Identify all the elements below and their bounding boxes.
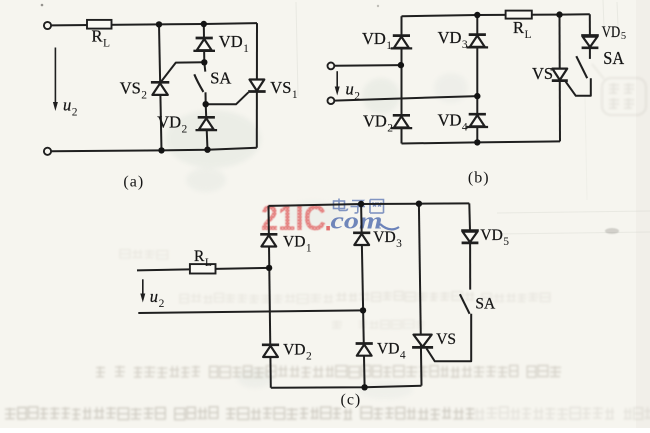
thyristor VS2 (a) [151, 82, 169, 95]
diode VD2 (c) [262, 345, 279, 357]
label u2 (c) [150, 287, 165, 310]
wire: (b) left bridge leg VD1/VD2 [401, 16, 403, 143]
node: (c) top rail / middle leg [358, 201, 364, 207]
node: (b) top rail / right leg [474, 12, 480, 18]
label VD5 (c) [480, 227, 509, 248]
svg-text:(c): (c) [341, 392, 362, 409]
node: (c) bottom rail / middle leg [361, 384, 367, 390]
label VD2 (b) [363, 111, 393, 134]
wire: (c) upper input wire [137, 268, 269, 271]
label VS (b) [532, 64, 553, 83]
switch SA (a) [194, 74, 203, 92]
wire: (c) bottom rail [271, 386, 422, 388]
label VD3 (c) [373, 229, 402, 250]
switch SA (b) [576, 56, 587, 78]
wire: (b) top rail [402, 14, 590, 16]
svg-text:5: 5 [621, 31, 626, 42]
node: (b) top rail / VS leg [556, 11, 562, 17]
node: (a) bottom rail / VS2 leg [158, 147, 164, 153]
wire: (a) left leg with VS2 [159, 24, 162, 150]
label VD2 (c) [283, 341, 312, 362]
wire: (a) middle leg with VD1, SA, VD2 [204, 24, 208, 150]
svg-text:VD: VD [373, 229, 395, 246]
arrow u2 (c) [140, 279, 145, 302]
diode VD5 (b) [581, 35, 599, 47]
terminal: (b) top-left input [328, 63, 335, 70]
resistor RL (c) [190, 264, 216, 273]
label VD2 (a) [157, 112, 187, 135]
node: (a) top rail / VD1 leg [201, 21, 207, 27]
diode VD3 (b) [467, 35, 489, 48]
terminal: (a) top-left input [44, 22, 51, 29]
label SA (a) [210, 69, 231, 88]
svg-text:1: 1 [292, 89, 298, 101]
wire: (c) lower input wire [138, 310, 363, 313]
svg-text:3: 3 [462, 39, 468, 51]
svg-text:4: 4 [462, 121, 468, 133]
svg-text:1: 1 [386, 40, 392, 52]
svg-text:(a): (a) [123, 174, 144, 191]
node: (b) bottom rail / right leg [474, 139, 480, 145]
node: (b) lower wire / right leg [474, 93, 480, 99]
watermark 电子网 blue text (drawn glyphs) [334, 199, 384, 214]
wire: VS1 gate to SA bottom node [206, 92, 249, 104]
label (c) [341, 392, 362, 409]
svg-text:VD: VD [363, 111, 387, 130]
svg-text:VD: VD [283, 341, 305, 358]
label SA (b) [603, 48, 624, 68]
svg-text:L: L [103, 38, 110, 50]
svg-text:(b): (b) [468, 170, 490, 187]
diode VD5 (c) [461, 231, 479, 243]
resistor RL (a) [87, 20, 112, 29]
svg-text:SA: SA [210, 69, 231, 88]
svg-text:VS: VS [120, 79, 141, 98]
diode VD2 (b) [391, 115, 413, 128]
watermark com blue script [331, 208, 400, 235]
diode VD3 (c) [353, 233, 370, 245]
wire: (b) upper input wire [334, 64, 401, 67]
diode VD1 (c) [260, 234, 277, 246]
svg-text:2: 2 [182, 123, 188, 135]
label VD4 (c) [377, 340, 406, 361]
wire: (a) right leg with VS1 [256, 23, 258, 148]
terminal: (b) bottom-left input [328, 97, 335, 104]
svg-text:2: 2 [141, 90, 147, 102]
svg-text:2: 2 [354, 91, 360, 103]
node: (c) lower wire / middle leg [360, 307, 366, 313]
svg-text:VD: VD [283, 233, 305, 250]
diode VD1 (a) [193, 38, 215, 51]
svg-text:VS: VS [532, 64, 553, 83]
node: (a) VD1 cathode / SA / VS2 gate [201, 59, 207, 65]
thyristor VS1 (a) [248, 80, 266, 92]
wire: (b) right bridge leg VD3/VD4 [476, 15, 478, 142]
arrow u2 (a) [53, 48, 58, 112]
svg-text:VD: VD [480, 227, 502, 244]
diode VD1 (b) [391, 36, 413, 49]
svg-text:u: u [150, 287, 158, 306]
svg-text:L: L [525, 29, 532, 41]
wire: (b) bottom rail [402, 141, 561, 143]
label VS2 (a) [120, 79, 148, 102]
svg-text:VD: VD [362, 29, 386, 48]
label VD3 (b) [438, 28, 468, 51]
wire: (c) left leg VD1/VD2 [269, 206, 271, 388]
wire: VD5 cathode stub (b) [589, 48, 591, 59]
node: (c) top rail / VS leg [416, 201, 422, 207]
svg-text:2: 2 [387, 122, 393, 134]
diode VD4 (b) [467, 114, 489, 127]
svg-text:VS: VS [270, 78, 291, 97]
thyristor VS (b) [552, 69, 568, 81]
svg-text:R: R [92, 27, 103, 46]
wire: VS2 gate to SA top node [161, 62, 205, 82]
svg-text:VD: VD [602, 24, 620, 41]
svg-text:u: u [346, 80, 354, 99]
diode VD4 (c) [356, 344, 373, 356]
wire: (c) middle leg VD3/VD4 [361, 204, 365, 387]
svg-text:5: 5 [503, 236, 509, 248]
switch SA (c) [460, 294, 470, 314]
terminal: (a) bottom-left input [44, 148, 51, 155]
label SA (c) [475, 295, 496, 312]
svg-text:VD: VD [438, 28, 462, 47]
svg-text:2: 2 [306, 350, 312, 362]
svg-text:SA: SA [475, 295, 496, 312]
node: (a) SA bottom / VD2 / VS1 gate [203, 101, 209, 107]
wire: (b) VS leg [559, 15, 562, 142]
wire: (c) top rail [269, 203, 470, 206]
label u2 (b) [346, 80, 361, 103]
thyristor VS (c) [412, 335, 433, 348]
wire: VS gate loop to SA (b) [565, 78, 591, 96]
node: (a) bottom rail / VD2 leg [204, 147, 210, 153]
svg-text:4: 4 [400, 349, 406, 361]
node: (a) top rail / VS2 leg [156, 21, 162, 27]
label RL (b) [513, 18, 532, 41]
label (a) [123, 174, 144, 191]
wire: (b) lower input wire [334, 96, 477, 101]
svg-text:3: 3 [396, 238, 402, 250]
svg-text:1: 1 [243, 43, 249, 55]
wire: (b) VD5 branch from top rail [589, 14, 591, 35]
svg-text:VS: VS [436, 331, 456, 348]
wire: (c) VD5 branch [468, 203, 471, 289]
svg-text:VD: VD [219, 32, 243, 51]
label VS (c) [436, 331, 456, 348]
svg-text:VD: VD [438, 110, 462, 129]
node: (c) upper wire / left leg [266, 265, 272, 271]
wire: (a) bottom rail [51, 148, 257, 152]
arrow u2 (b) [335, 71, 340, 95]
label VD1 (a) [219, 32, 249, 55]
label (b) [468, 170, 490, 187]
watermark 21IC red text [261, 199, 330, 238]
wire: (c) VS leg [419, 204, 422, 386]
svg-text:L: L [205, 257, 212, 269]
svg-text:SA: SA [603, 48, 624, 68]
svg-text:1: 1 [306, 242, 312, 254]
svg-text:R: R [513, 18, 524, 37]
label VS1 (a) [270, 78, 298, 101]
svg-text:2: 2 [159, 298, 165, 310]
svg-text:2: 2 [72, 107, 78, 119]
wire: (a) top rail [51, 23, 257, 25]
label RL (c) [194, 248, 212, 269]
label VD1 (b) [362, 29, 392, 52]
wire: VS gate loop to SA (c) [427, 314, 472, 362]
label u2 (a) [63, 96, 78, 119]
svg-text:VD: VD [377, 340, 399, 357]
svg-text:R: R [194, 248, 205, 265]
svg-text:VD: VD [157, 112, 181, 131]
resistor RL (b) [506, 11, 532, 19]
label VD1 (c) [283, 233, 312, 254]
label RL (a) [92, 27, 111, 50]
label VD4 (b) [438, 110, 468, 133]
diode VD2 (a) [196, 117, 218, 130]
svg-text:u: u [63, 96, 71, 115]
label VD5 (b) [602, 24, 626, 42]
node: (b) upper wire / left leg [398, 62, 404, 68]
